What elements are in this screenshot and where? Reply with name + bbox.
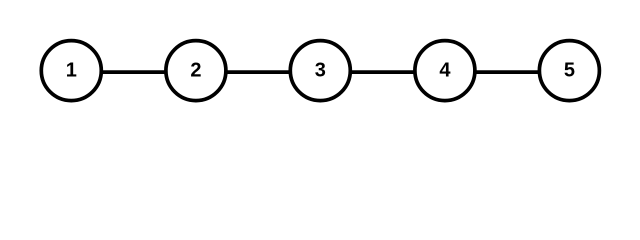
svg-text:4: 4: [439, 60, 451, 82]
svg-text:5: 5: [564, 60, 575, 82]
svg-text:1: 1: [66, 60, 77, 82]
svg-text:2: 2: [190, 60, 201, 82]
svg-text:3: 3: [315, 60, 326, 82]
